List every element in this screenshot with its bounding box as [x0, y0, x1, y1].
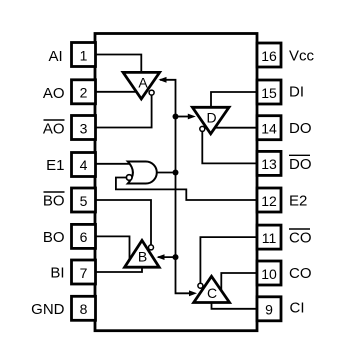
buffer D bubble	[200, 126, 205, 131]
svg-text:7: 7	[80, 265, 88, 281]
pin 5 box	[72, 188, 96, 212]
buffer A bubble	[149, 90, 154, 95]
svg-text:D: D	[206, 110, 216, 126]
pin 6 box	[72, 224, 96, 248]
pin 3 box	[72, 116, 96, 140]
buffer B bubble	[149, 245, 154, 250]
wire pin10 CO to buffer C right slant	[221, 273, 257, 290]
buffer A	[123, 72, 160, 99]
svg-text:13: 13	[261, 156, 277, 172]
wire pin14 DO to buffer D right slant	[214, 127, 257, 129]
svg-text:11: 11	[262, 230, 277, 246]
svg-text:CO: CO	[289, 265, 312, 282]
pin 9 box	[257, 297, 281, 321]
svg-text:3: 3	[80, 120, 88, 136]
wire enable vertical line with arrows to A and C	[160, 80, 190, 293]
svg-text:8: 8	[80, 301, 88, 317]
svg-text:CI: CI	[290, 300, 305, 317]
svg-text:6: 6	[80, 229, 88, 245]
pin 8 box	[72, 296, 96, 320]
svg-text:12: 12	[261, 193, 277, 209]
pin 15 box	[257, 80, 281, 104]
svg-text:Vcc: Vcc	[289, 47, 315, 64]
svg-text:DO: DO	[289, 156, 312, 173]
svg-text:BO: BO	[43, 229, 65, 246]
svg-text:A: A	[138, 75, 148, 91]
svg-text:4: 4	[80, 157, 88, 173]
wire pin15 DI to buffer D input	[211, 92, 257, 108]
enable gate (OR with inverted input)	[128, 162, 157, 184]
wire enable branch to buffer D	[176, 116, 189, 118]
svg-text:14: 14	[261, 121, 277, 137]
wire pin4 E1 to gate input	[95, 163, 138, 165]
wire pin13 DOn to buffer D bubble	[202, 129, 257, 164]
svg-text:5: 5	[80, 193, 88, 209]
svg-text:AO: AO	[43, 121, 65, 138]
junction dot enable to B	[173, 254, 179, 260]
overline DO-bar	[289, 154, 310, 156]
svg-text:E1: E1	[46, 157, 64, 174]
pin 7 box	[72, 260, 96, 284]
svg-text:GND: GND	[31, 301, 65, 318]
wire pin7 BI to buffer B input	[95, 267, 142, 273]
svg-text:2: 2	[80, 84, 88, 100]
svg-text:10: 10	[261, 266, 277, 282]
wire pin1 AI to buffer A input	[95, 55, 141, 74]
overline BO-bar	[44, 191, 65, 193]
pin 1 box	[72, 43, 96, 67]
svg-text:9: 9	[265, 302, 273, 318]
pin 16 box	[257, 43, 281, 67]
wire pin5 BOn to buffer B bubble	[95, 200, 151, 247]
svg-text:BI: BI	[50, 265, 64, 282]
wire pin9 CI to buffer C input	[212, 303, 258, 309]
buffer D	[192, 107, 229, 134]
svg-text:DO: DO	[289, 120, 312, 137]
pin 4 box	[72, 153, 96, 177]
gate input bubble	[126, 175, 132, 181]
pin 11 box	[257, 225, 281, 249]
overline AO-bar	[44, 119, 65, 121]
svg-text:AI: AI	[49, 48, 63, 65]
junction dot gate output	[173, 170, 179, 176]
wire pin11 COn to buffer C bubble	[200, 237, 257, 286]
pin 13 box	[257, 151, 281, 175]
pin 12 box	[257, 188, 281, 212]
svg-text:BO: BO	[43, 193, 65, 210]
wire pin12 E2 to gate bubble input	[116, 178, 257, 201]
IC body	[95, 34, 257, 331]
pin 10 box	[257, 261, 281, 285]
buffer C	[194, 276, 230, 302]
svg-text:1: 1	[80, 47, 88, 63]
junction dot enable to D	[173, 114, 179, 120]
buffer C enable arrowhead	[189, 290, 197, 296]
svg-text:DI: DI	[289, 83, 304, 100]
wire gate output to enable line	[157, 172, 175, 174]
svg-text:15: 15	[261, 85, 277, 101]
svg-text:B: B	[138, 249, 147, 265]
pin 2 box	[72, 80, 96, 104]
buffer C bubble	[198, 283, 203, 288]
wire enable branch to buffer B	[158, 256, 176, 258]
svg-text:C: C	[207, 285, 217, 301]
svg-text:E2: E2	[289, 192, 307, 209]
buffer B enable arrowhead	[157, 254, 165, 260]
pin 14 box	[257, 116, 281, 140]
buffer B	[125, 240, 160, 267]
wire pin2 AO to buffer A left slant	[95, 91, 138, 93]
wire pin3 AOn to buffer A bubble	[95, 93, 152, 128]
svg-text:AO: AO	[43, 85, 65, 102]
svg-text:16: 16	[261, 48, 277, 64]
buffer D enable arrowhead	[188, 114, 196, 120]
svg-text:CO: CO	[289, 230, 312, 247]
buffer A enable arrowhead	[159, 77, 167, 83]
wire pin6 BO to buffer B left slant	[95, 236, 130, 260]
overline CO-bar	[289, 228, 310, 230]
